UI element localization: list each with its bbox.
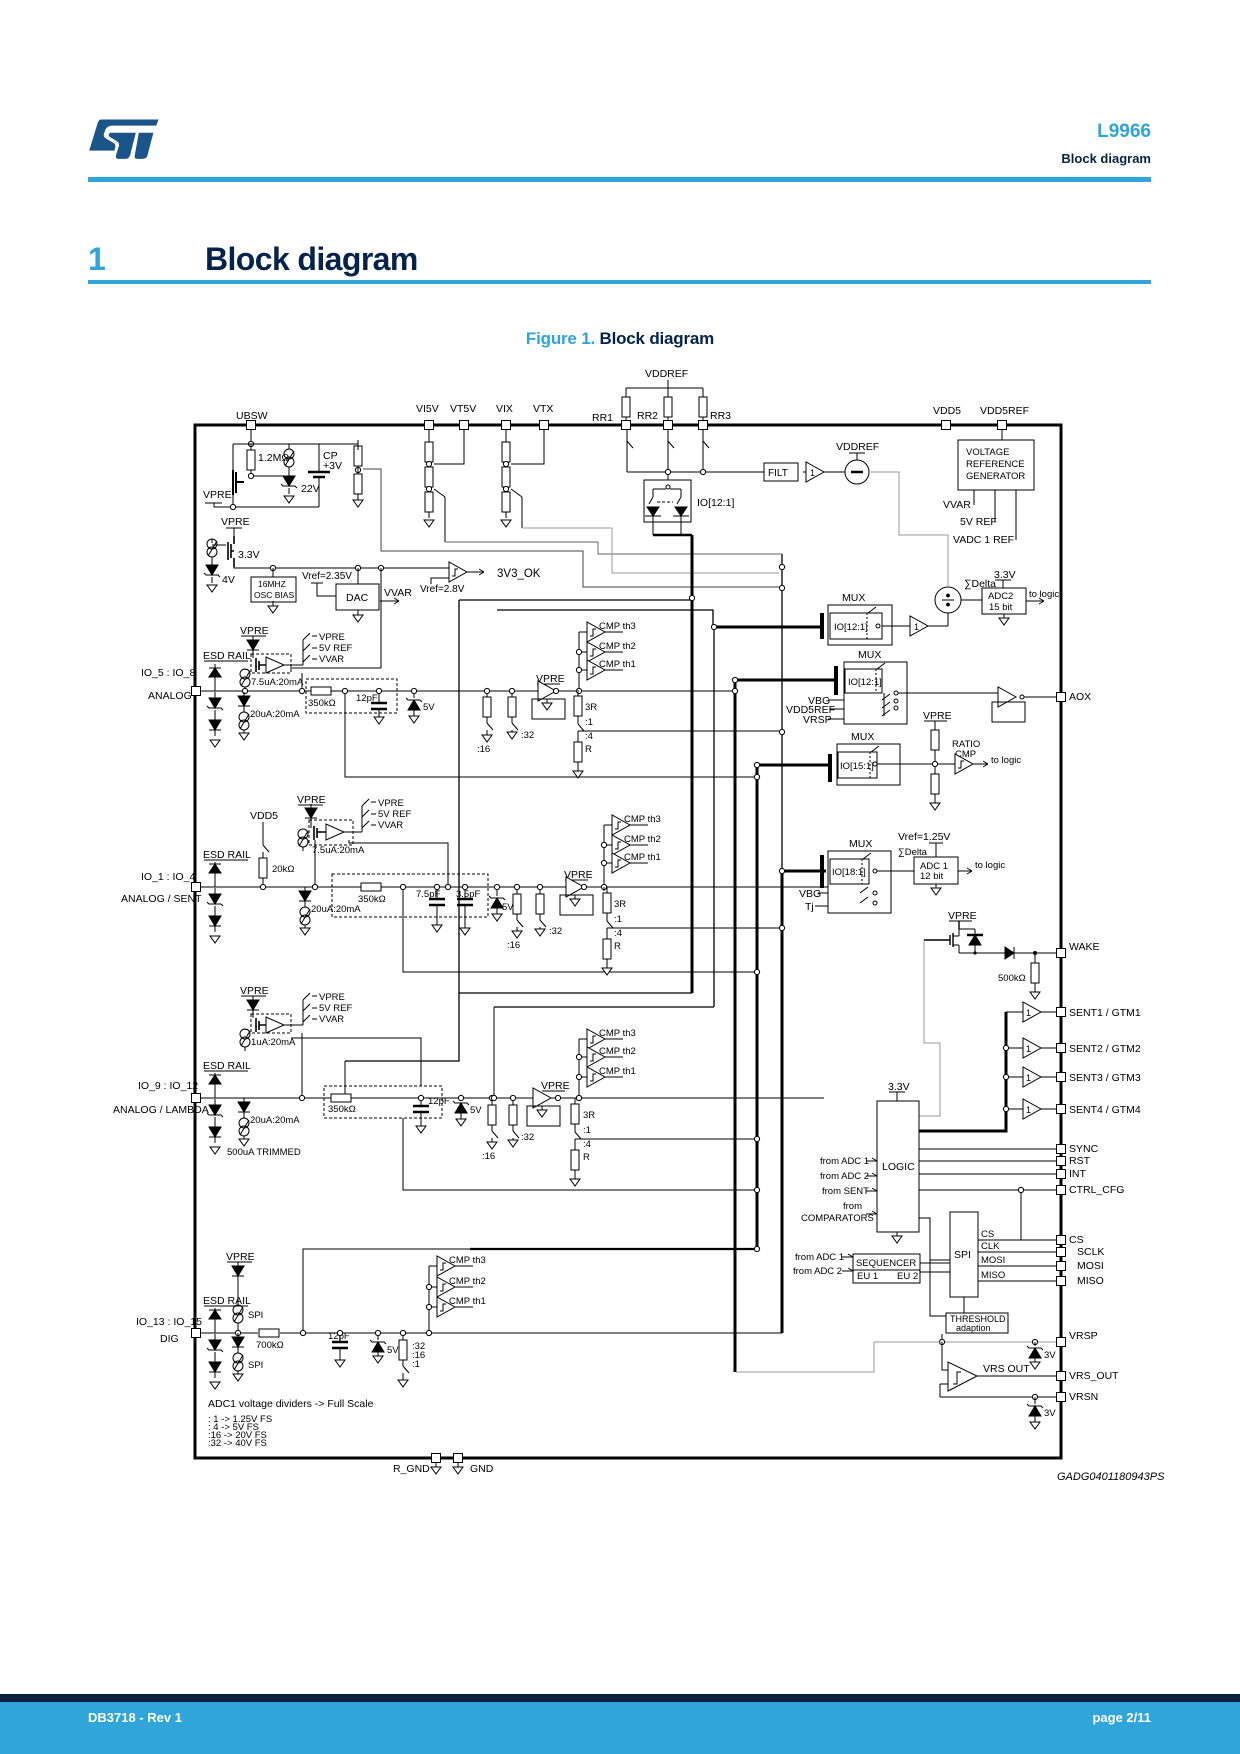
svg-text:CMP th3: CMP th3 [599,621,636,632]
3.3V supply ADC2 [994,569,1016,588]
svg-text:FILT: FILT [768,468,788,479]
dashed divider box ch1 [306,679,397,713]
transistor M_VPRE [228,536,260,567]
net VADC 1 REF [953,490,1016,546]
VPRE diode ch1 [240,625,269,658]
gray wire to divider [869,472,948,575]
svg-text:SENT2 / GTM2: SENT2 / GTM2 [1069,1043,1141,1055]
svg-text:VRSN: VRSN [1069,1391,1098,1403]
svg-text::32 -> 40V FS: :32 -> 40V FS [208,1438,267,1449]
wire VT5V [434,430,464,464]
divider res :16 ch2 [507,884,523,951]
comparators ch2 [612,814,661,835]
ground [210,740,220,747]
svg-text:VI5V: VI5V [416,403,439,415]
svg-text:VPRE: VPRE [240,985,269,997]
pin GND [453,1454,494,1476]
thick logic-sent bus [919,1012,1006,1131]
svg-text:from ADC 1: from ADC 1 [795,1252,844,1263]
diode ESD up ch2 [209,862,221,887]
svg-text::1: :1 [585,717,593,728]
svg-text:ANALOG / SENT: ANALOG / SENT [121,893,202,905]
svg-text:SCLK: SCLK [1077,1246,1104,1258]
svg-text:VRS OUT: VRS OUT [983,1363,1030,1375]
svg-text:500kΩ: 500kΩ [998,973,1026,984]
svg-text:1: 1 [810,468,815,478]
svg-text:to logic: to logic [991,755,1021,766]
cap 12pF ch3 [413,1095,450,1133]
svg-text:VIX: VIX [496,403,513,415]
cap 12pF ch1 [356,688,387,724]
zener down ch2 [207,888,223,912]
svg-text::32: :32 [521,1132,534,1143]
cmp collector ch3 [579,1039,587,1098]
VDD5 + 20k ch2 [250,810,294,890]
svg-text:VPRE: VPRE [203,489,232,501]
svg-text:5V: 5V [387,1345,399,1356]
diode ESD up ch3 [209,1073,221,1098]
svg-text:IO[12:1]: IO[12:1] [848,677,882,688]
svg-text:SPI: SPI [954,1249,971,1261]
input from ADC 1 [820,1156,877,1167]
input from SENT [822,1186,877,1197]
svg-text:CMP th2: CMP th2 [624,834,661,845]
resistor 350k ch2 [358,883,386,905]
switch tap [511,489,522,528]
svg-text:5V REF: 5V REF [319,643,352,654]
ADC2 [961,588,1059,625]
svg-text:VPRE: VPRE [319,992,345,1003]
svg-text::4: :4 [585,731,593,742]
net VRSP [803,714,844,726]
bus D [757,765,830,1249]
resistor 350k ch1 [308,687,336,709]
cmp collector ch4 [429,1266,437,1333]
svg-text:1: 1 [1026,1008,1031,1018]
ground [424,520,434,527]
svg-text:+3V: +3V [323,460,342,472]
svg-text:3V: 3V [1044,1408,1056,1419]
return line ch2 [403,887,754,972]
current source 20uA ch3 [227,1098,301,1158]
buffer VPRE ch3 [527,1080,582,1126]
svg-text::16: :16 [482,1151,495,1162]
FILT box [764,463,798,481]
svg-text:MISO: MISO [1077,1275,1104,1287]
svg-text::1: :1 [583,1125,591,1136]
svg-text:IO[12:1]: IO[12:1] [834,622,868,633]
svg-text:IO[12:1]: IO[12:1] [697,497,734,509]
svg-text:VPRE: VPRE [948,910,977,922]
ESD rail ch1 [203,650,251,662]
ratio comparator [877,739,1021,774]
pin IO_13:IO_15 [136,1316,202,1345]
amp assembly ch1 [251,640,303,673]
pin VRS_OUT [1057,1370,1120,1382]
ground [353,500,363,507]
resistor 500k [998,953,1040,999]
svg-text:UBSW: UBSW [236,410,268,422]
svg-text::4: :4 [614,928,622,939]
svg-text:20uA:20mA: 20uA:20mA [250,709,300,720]
svg-text:R_GND: R_GND [393,1463,430,1475]
resistor VIX 2 [502,461,510,493]
note ADC1 voltage dividers [208,1398,374,1449]
comparators ch1 [587,621,636,642]
svg-text:R: R [614,941,621,952]
wire to FILT [627,471,764,473]
dashed divider box ch3 [324,1086,442,1118]
svg-text:IO_5 : IO_8: IO_5 : IO_8 [141,667,195,679]
svg-text:COMPARATORS: COMPARATORS [801,1213,874,1224]
wire to bus [445,542,782,554]
switch tap [434,489,445,542]
svg-text:16MHZ: 16MHZ [258,579,286,589]
svg-text:CMP th2: CMP th2 [449,1276,486,1287]
svg-text:3R: 3R [585,702,597,713]
resistor VI5V 2 [425,461,433,493]
switches ch2 [362,798,411,831]
zener 22V [281,470,320,503]
svg-text:350kΩ: 350kΩ [328,1104,356,1115]
svg-text:RST: RST [1069,1155,1091,1167]
pin WAKE [1057,941,1100,958]
svg-text:ESD RAIL: ESD RAIL [203,849,251,861]
zener 5V ch4 [370,1330,399,1363]
logic outputs [919,1143,1099,1155]
wake output wire [959,952,1005,954]
svg-text:EU 2: EU 2 [897,1271,918,1282]
svg-text:1: 1 [1026,1105,1031,1115]
net VVAR out [380,587,412,604]
svg-text:GENERATOR: GENERATOR [966,471,1025,482]
svg-text:GND: GND [470,1463,494,1475]
svg-text:VVAR: VVAR [378,820,403,831]
bus A [691,535,694,993]
3.3V supply logic [888,1081,910,1101]
dashed divider box ch2 [332,874,488,917]
zener 3V vrsn [1027,1397,1056,1429]
block DAC [336,568,379,622]
switches VPRE/5VREF/VVAR ch1 [303,632,352,665]
mux U_MUX15 [830,731,900,785]
buffer VPRE ch1 [532,673,565,719]
sent3 buffer [1003,1067,1141,1087]
svg-text:5V: 5V [470,1105,482,1116]
current source 7.5uA ch1 [240,669,304,694]
svg-text:R: R [583,1152,590,1163]
wire UBSW down [250,430,252,444]
node Vref=2.35V [302,571,352,596]
cmp collector ch1 [579,632,587,691]
divider chain 3R ch1 [573,690,779,778]
pin AOX [1057,691,1092,703]
figure caption [0,329,1240,349]
svg-text:ANALOG / LAMBDA: ANALOG / LAMBDA [113,1104,209,1116]
diode down ch4 [209,1358,221,1378]
current source 20uA ch2 [299,887,361,935]
svg-text:R: R [585,744,592,755]
diode ESD up ch1 [209,664,221,691]
sent4 buffer [1003,1099,1141,1119]
comparator 3V3_OK [449,562,541,582]
svg-text:IO_1 : IO_4: IO_1 : IO_4 [141,871,195,883]
resistor R top right [354,440,362,472]
drain to wire ch3 [301,1033,303,1098]
svg-text:CMP th2: CMP th2 [599,641,636,652]
svg-text:VPRE: VPRE [240,625,269,637]
drain to wire ch1 [301,673,303,691]
wire to VDDREF source [824,471,845,473]
mux U_MUX18 [822,838,891,913]
pin VT5V [450,403,476,430]
svg-text:MUX: MUX [858,649,881,661]
svg-text:RR2: RR2 [637,410,658,422]
chip outer border [195,425,1061,1458]
gray vrsp route [736,1342,942,1372]
wire main ch1 [200,690,735,692]
buffer VPRE ch2 [560,869,593,915]
svg-text:CMP th1: CMP th1 [624,852,661,863]
resistor VIX 3 [502,486,510,518]
return line ch3 [403,1118,754,1190]
svg-text::32: :32 [521,730,534,741]
svg-text::32: :32 [549,926,562,937]
pin VI5V [416,403,439,430]
mux U_MUX2 [836,649,907,724]
resistor RR3 [699,388,731,423]
svg-text:IO_9 : IO_12: IO_9 : IO_12 [138,1080,198,1092]
svg-text:LOGIC: LOGIC [882,1161,915,1173]
svg-text:ESD RAIL: ESD RAIL [203,1060,251,1072]
svg-text:from ADC 1: from ADC 1 [820,1156,869,1167]
sent2 buffer [1003,1038,1141,1058]
svg-text:Vref=1.25V: Vref=1.25V [898,831,950,843]
svg-text:1: 1 [1026,1044,1031,1054]
ESD rail ch4 [203,1295,251,1307]
svg-text:15 bit: 15 bit [989,602,1013,613]
svg-text:CMP th2: CMP th2 [599,1046,636,1057]
block U_SEQ [853,1254,950,1283]
svg-text:12pF: 12pF [428,1096,450,1107]
svg-text:RR3: RR3 [710,410,731,422]
node junction [251,475,284,477]
svg-text:AOX: AOX [1069,691,1091,703]
pin IO_9:IO_12 [113,1080,209,1116]
resistor 1.2M [247,444,289,476]
block U_VRG [958,440,1034,490]
svg-text:IO_13 : IO_15: IO_13 : IO_15 [136,1316,202,1328]
diode down ch2 [209,912,221,932]
node Vref=1.25V [898,831,950,857]
current source [207,539,217,557]
svg-text:IO[18:1]: IO[18:1] [832,867,866,878]
pin UBSW [236,410,268,430]
VPRE divider for ratio [923,710,955,810]
svg-text:VBG: VBG [799,888,821,900]
series diode wake [1005,947,1056,959]
divider res :16 ch1 [477,688,493,755]
switches below RR pins [627,430,633,472]
svg-text:from: from [843,1201,862,1212]
body diode [959,929,983,953]
svg-text:SENT4 / GTM4: SENT4 / GTM4 [1069,1104,1141,1116]
caps 7.5pF 3.5pF ch2 [416,884,445,932]
wire VDD5REF down [1001,430,1003,440]
header rule [88,177,1151,182]
return line ch1 [345,691,754,777]
current source 20uA ch1 [238,692,300,740]
gray gate route [919,940,940,1116]
wire main ch3 [200,1097,824,1099]
wire to bus [522,528,779,573]
divider res :32 ch3 [508,1095,534,1147]
pin VIX [496,403,513,430]
svg-text:350kΩ: 350kΩ [358,894,386,905]
svg-text:VRS_OUT: VRS_OUT [1069,1370,1119,1382]
svg-text:VRSP: VRSP [803,714,832,726]
buffer 1 [882,613,948,636]
VPRE diode ch3 [240,985,269,1018]
input from ADC 2 [820,1171,877,1182]
svg-text:VRSP: VRSP [1069,1330,1098,1342]
svg-text:MOSI: MOSI [981,1255,1005,1266]
bus junction dots [689,595,694,600]
svg-text:VPRE: VPRE [319,632,345,643]
svg-text:5V REF: 5V REF [960,516,997,528]
svg-text:to logic: to logic [1029,589,1059,600]
svg-text:IO[15:1]: IO[15:1] [840,761,874,772]
svg-text:MISO: MISO [981,1270,1005,1281]
zener down ch1 [207,692,223,716]
divider circle [935,587,961,613]
diode ESD up ch4 [209,1308,221,1333]
svg-text:20kΩ: 20kΩ [272,864,294,875]
svg-text:VDD5: VDD5 [933,405,961,417]
divider res :32 ch2 [535,884,562,937]
svg-text:3.3V: 3.3V [238,549,260,561]
svg-text:CLK: CLK [981,1241,1000,1252]
svg-text:700kΩ: 700kΩ [256,1340,284,1351]
svg-text:∑Delta: ∑Delta [898,847,928,858]
feed from bus A ch3 [344,1061,346,1098]
ST logo [85,112,165,162]
svg-text:3V3_OK: 3V3_OK [497,568,541,580]
svg-text:1.2MΩ: 1.2MΩ [258,452,289,464]
ESD rail ch2 [203,849,251,861]
node VDDREF [626,368,703,388]
resistor R bottom right [354,468,362,500]
net VVAR [943,490,974,511]
svg-text:3V: 3V [1044,1350,1056,1361]
svg-text:from SENT: from SENT [822,1186,869,1197]
resistor 350k ch3 [328,1094,356,1115]
svg-text:4V: 4V [222,574,235,586]
pin IO_5:IO_8 [141,667,201,702]
cmp collector ch2 [604,825,612,887]
svg-text:RR1: RR1 [592,412,613,424]
resistor RR1 [592,388,630,424]
divider res :32/:16/:1 ch4 [398,1330,425,1387]
ground [210,1147,220,1154]
net 5V REF [960,490,997,528]
ADC1 [877,857,1005,895]
amp assembly ch3 [251,1000,303,1033]
bus B [713,627,715,1007]
zener down ch3 [207,1099,223,1123]
comparators ch4 [437,1255,486,1276]
svg-text:MOSI: MOSI [1077,1260,1104,1272]
spi signals [978,1229,1084,1246]
svg-text:Vref=2.8V: Vref=2.8V [420,584,465,595]
ESD rail ch3 [203,1060,251,1072]
svg-text:from ADC 2: from ADC 2 [820,1171,869,1182]
svg-text:5V: 5V [423,702,435,713]
current source 7.5uA ch2 [298,829,365,856]
svg-text:Tj: Tj [805,901,814,913]
svg-text::1: :1 [412,1359,420,1370]
svg-text:CMP th1: CMP th1 [599,659,636,670]
sent1 buffer [1006,1002,1141,1022]
cap 12pF ch4 [328,1330,350,1367]
svg-text::16: :16 [477,744,490,755]
zener 5V ch3 [453,1095,482,1126]
pin VDD5REF [980,405,1029,430]
svg-text:MUX: MUX [849,838,872,850]
vrsn line [940,1391,1098,1403]
svg-text:SPI: SPI [248,1310,263,1321]
svg-text:350kΩ: 350kΩ [308,698,336,709]
svg-text:SYNC: SYNC [1069,1143,1099,1155]
net VBG [808,695,844,707]
svg-text:VPRE: VPRE [226,1251,255,1263]
VPRE supply wake [948,910,977,927]
svg-text:from ADC 2: from ADC 2 [793,1266,842,1277]
riser to DIG bus line ch4 [303,1249,470,1333]
svg-text:7.5uA:20mA: 7.5uA:20mA [312,845,365,856]
IO[12:1] diode block [644,480,734,535]
svg-text:1: 1 [914,622,919,632]
current source SPI pull-down ch4 [232,1333,263,1381]
pin IO_1:IO_4 [121,871,202,905]
zener down ch4 [207,1334,223,1358]
VPRE tick [221,516,250,536]
resistor VI5V 1 [428,430,430,441]
figure id text [1057,1471,1164,1483]
wire main ch2 [200,886,828,888]
svg-text::16: :16 [507,940,520,951]
gray link top [869,472,948,587]
wire bottom [214,506,319,508]
pins RR [622,421,631,430]
aox buffer [898,687,1056,722]
svg-text::4: :4 [583,1139,591,1150]
VPRE diode ch2 [297,794,326,828]
svg-text:INT: INT [1069,1168,1087,1180]
vrsp line [939,1330,1097,1347]
diode down ch3 [209,1123,221,1143]
zener 5V ch1 [406,688,435,723]
footer [0,1694,1240,1702]
bus C [734,678,737,1372]
svg-text:5V REF: 5V REF [378,809,411,820]
svg-text:VDD5REF: VDD5REF [980,405,1029,417]
comparators ch3 [587,1028,636,1049]
diode down ch1 [209,716,221,736]
svg-text:OSC BIAS: OSC BIAS [254,590,294,600]
resistor 700k ch4 (series) [256,1329,284,1351]
svg-text:VVAR: VVAR [384,587,412,599]
